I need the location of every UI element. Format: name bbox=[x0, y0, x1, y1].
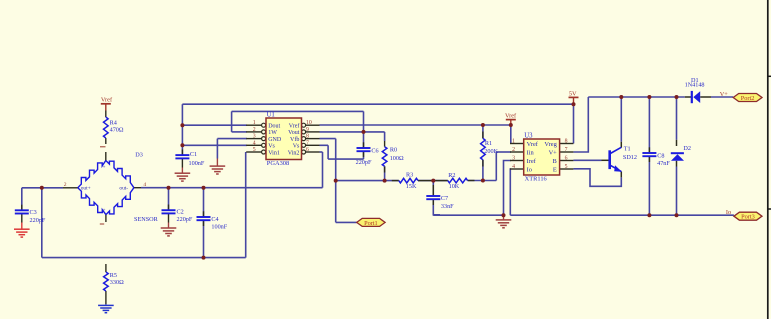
svg-text:6: 6 bbox=[306, 147, 309, 153]
wire Port1 lead bbox=[336, 221, 357, 223]
wire C6 bottom lead bbox=[363, 151, 365, 159]
svg-text:+: + bbox=[103, 166, 106, 171]
svg-text:V+: V+ bbox=[549, 149, 558, 156]
op-amp U1 PGA308 body bbox=[266, 118, 302, 160]
svg-text:1: 1 bbox=[512, 138, 515, 144]
resistor R4 body bbox=[104, 117, 109, 138]
stub C1 top lead bbox=[181, 150, 183, 156]
sheet border tick upper bbox=[768, 75, 771, 77]
junction pin4/supply bbox=[180, 143, 184, 147]
svg-text:E: E bbox=[553, 166, 557, 173]
wire U1 pin6 net bbox=[320, 151, 323, 153]
stub bridge top lead bbox=[105, 152, 107, 161]
wire Iin riser bbox=[495, 152, 497, 181]
wire C7 bottom lead bbox=[433, 199, 440, 215]
svg-text:220pF: 220pF bbox=[177, 216, 193, 223]
svg-text:330Ω: 330Ω bbox=[110, 279, 124, 286]
wire U3 pin2 lead bbox=[496, 151, 511, 153]
svg-text:C4: C4 bbox=[211, 216, 218, 223]
wire U1 pin8 Vfb bbox=[320, 138, 336, 140]
stub R5 leads bbox=[105, 264, 107, 272]
capacitor C3 body bbox=[15, 209, 29, 211]
svg-text:Iref: Iref bbox=[527, 158, 537, 165]
junction C4 bottom bbox=[202, 256, 206, 260]
svg-text:5: 5 bbox=[565, 164, 568, 170]
svg-text:R4: R4 bbox=[110, 120, 117, 127]
stub bridge left lead bbox=[63, 187, 78, 189]
svg-text:out+: out+ bbox=[81, 185, 91, 191]
wire U3 pin4 drop bbox=[509, 169, 512, 215]
wire Vout to R0 bbox=[384, 132, 386, 141]
svg-text:XTR116: XTR116 bbox=[525, 175, 547, 182]
svg-text:100nF: 100nF bbox=[189, 160, 205, 167]
diode D2 body bbox=[671, 154, 684, 160]
wire R3-R2 link bbox=[418, 180, 448, 182]
junction C4 tap bbox=[202, 186, 206, 190]
junction 5V stem bbox=[572, 102, 576, 106]
wire Vin2 riser bbox=[322, 152, 324, 188]
wire R1 top lead bbox=[482, 125, 484, 138]
power port Vref right bbox=[506, 119, 516, 121]
svg-text:470Ω: 470Ω bbox=[110, 127, 124, 134]
stub C3 top lead bbox=[21, 205, 23, 211]
wire emitter net bbox=[573, 169, 621, 187]
svg-text:3: 3 bbox=[253, 134, 256, 140]
svg-text:C1: C1 bbox=[190, 151, 197, 158]
sheet border right edge bbox=[767, 0, 769, 319]
svg-text:15K: 15K bbox=[406, 183, 417, 190]
stub C8 leads bbox=[648, 147, 650, 153]
svg-text:220pF: 220pF bbox=[356, 159, 372, 166]
stub C2 top lead bbox=[168, 205, 170, 211]
stub R2 leads bbox=[433, 180, 448, 182]
junction C2 tap bbox=[167, 186, 171, 190]
svg-text:Vout: Vout bbox=[288, 130, 300, 136]
op-amp U3 XTR116 body bbox=[524, 139, 560, 175]
svg-text:3: 3 bbox=[512, 155, 515, 161]
sheet border tick lower bbox=[768, 208, 771, 210]
wire V+ riser bbox=[573, 97, 588, 152]
svg-text:U3: U3 bbox=[524, 132, 533, 139]
wire C8 bottom lead bbox=[648, 156, 650, 215]
diode D1 body bbox=[693, 91, 700, 103]
svg-text:2: 2 bbox=[512, 147, 515, 153]
stub bridge bottom lead bbox=[105, 215, 107, 222]
stub R0 leads bbox=[384, 141, 386, 147]
stub T1 collector bbox=[620, 142, 622, 148]
stub bridge right lead bbox=[134, 187, 141, 189]
U3 left pin stubs bbox=[510, 143, 524, 145]
svg-text:5V: 5V bbox=[569, 91, 577, 98]
svg-text:33nF: 33nF bbox=[441, 203, 454, 210]
stub R3 leads bbox=[392, 180, 399, 182]
U3 right pin stubs bbox=[560, 143, 574, 145]
wire 1W jumper left drop bbox=[231, 111, 233, 131]
svg-text:Vs: Vs bbox=[293, 144, 300, 150]
svg-text:C6: C6 bbox=[371, 147, 378, 154]
junction R0 bottom bbox=[383, 179, 387, 183]
port Port2 bbox=[733, 94, 762, 102]
svg-text:47nF: 47nF bbox=[657, 160, 670, 167]
wire U3 pin3 gnd drop bbox=[504, 161, 512, 216]
wire feedback rail R3 left bbox=[336, 180, 399, 182]
wire U1 pin1 net bbox=[182, 124, 247, 126]
power port Vref left bbox=[101, 103, 111, 105]
svg-text:PGA308: PGA308 bbox=[267, 160, 289, 167]
port Port3 bbox=[734, 212, 762, 220]
resistor R3 body bbox=[399, 178, 418, 183]
wire Vref drop to U3 pin1 bbox=[510, 125, 512, 144]
svg-text:Iin: Iin bbox=[527, 149, 535, 156]
svg-text:100nF: 100nF bbox=[211, 223, 227, 230]
sensor bridge D3 arm bottom-left bbox=[78, 188, 106, 215]
wire bridge out- rail bbox=[141, 187, 323, 189]
capacitor C6 body bbox=[357, 147, 371, 149]
wire R0 bottom lead bbox=[384, 166, 386, 180]
svg-text:+: + bbox=[103, 209, 106, 214]
wire D2 top lead bbox=[676, 97, 678, 140]
svg-text:C7: C7 bbox=[441, 195, 448, 202]
stub C3 bottom lead bbox=[21, 214, 23, 223]
svg-text:Io: Io bbox=[726, 209, 731, 216]
svg-text:D3: D3 bbox=[135, 151, 143, 158]
svg-text:Vref: Vref bbox=[289, 123, 300, 130]
stub C4 leads bbox=[203, 211, 205, 217]
sensor bridge D3 arm bottom-right bbox=[106, 188, 134, 215]
stub D1 leads bbox=[685, 96, 691, 98]
junction Vout/C6 bbox=[362, 130, 366, 134]
svg-text:C2: C2 bbox=[177, 208, 184, 215]
junction C7 top bbox=[431, 179, 435, 183]
junction Vfb rail bbox=[334, 179, 338, 183]
svg-text:Vs: Vs bbox=[268, 144, 275, 150]
svg-text:Vfb: Vfb bbox=[290, 136, 299, 143]
svg-text:B: B bbox=[553, 158, 557, 165]
resistor R2 body bbox=[448, 178, 468, 183]
svg-text:V+: V+ bbox=[720, 91, 729, 98]
svg-text:Vref: Vref bbox=[101, 97, 113, 104]
svg-text:Vin1: Vin1 bbox=[268, 150, 280, 156]
svg-text:2: 2 bbox=[253, 127, 256, 133]
junction collector/V+ rail bbox=[619, 95, 623, 99]
wire Vref long net bbox=[320, 124, 511, 126]
svg-text:C8: C8 bbox=[657, 153, 664, 160]
wire U1 pin2 net bbox=[232, 131, 247, 133]
svg-text:out-: out- bbox=[119, 185, 128, 191]
capacitor C8 body bbox=[642, 152, 656, 154]
wire C2 top lead bbox=[168, 188, 170, 211]
svg-text:T1: T1 bbox=[624, 146, 631, 153]
resistor R0 body bbox=[382, 147, 387, 167]
ground blue under R5 bbox=[105, 304, 107, 305]
stub C7 top lead bbox=[432, 185, 434, 196]
junction R1 bottom bbox=[481, 179, 485, 183]
svg-text:D2: D2 bbox=[683, 145, 691, 152]
svg-text:2: 2 bbox=[64, 182, 67, 188]
ground red under U1 GND pin bbox=[216, 159, 218, 167]
wire 1W-to-Vout jumper top bbox=[232, 110, 364, 112]
svg-text:R3: R3 bbox=[406, 172, 413, 179]
svg-text:U1: U1 bbox=[267, 112, 275, 119]
wire bottom-left rail Vin1 bbox=[42, 257, 246, 259]
wire collector riser bbox=[620, 97, 622, 142]
junction pin1/supply bbox=[180, 123, 184, 127]
wire C7 top lead bbox=[432, 181, 434, 196]
svg-text:1W: 1W bbox=[268, 130, 277, 136]
U1 right pin stubs with dot bubbles bbox=[306, 124, 320, 126]
svg-text:200K: 200K bbox=[484, 148, 498, 155]
wire C6 bottom link bbox=[328, 158, 364, 160]
svg-text:4: 4 bbox=[253, 140, 256, 146]
stub T1 base bbox=[602, 159, 609, 161]
sensor bridge D3 arm top-right bbox=[106, 161, 134, 188]
junction R1 top bbox=[481, 123, 485, 127]
U1 left pin stubs with dot bubbles bbox=[246, 124, 261, 126]
svg-text:7: 7 bbox=[306, 140, 309, 146]
svg-text:Vref: Vref bbox=[527, 141, 539, 148]
stub C1 bottom lead bbox=[181, 158, 183, 167]
wire V+ top rail bbox=[588, 96, 685, 98]
transistor T1 emitter arm bbox=[610, 165, 621, 171]
svg-text:Port2: Port2 bbox=[741, 95, 755, 102]
capacitor C1 body bbox=[175, 154, 189, 156]
svg-text:Vin2: Vin2 bbox=[288, 150, 300, 156]
junction D2 top bbox=[675, 95, 679, 99]
wire D1 right lead bbox=[711, 96, 733, 98]
transistor T1 base bar bbox=[608, 150, 611, 169]
svg-text:220pF: 220pF bbox=[30, 217, 46, 224]
wire Vfb vertical bbox=[335, 139, 337, 223]
svg-text:7: 7 bbox=[565, 147, 568, 153]
stub C2 bottom lead bbox=[168, 213, 170, 222]
svg-text:Vreg: Vreg bbox=[544, 141, 557, 148]
wire D2 bottom lead bbox=[676, 167, 678, 216]
wire R1 bottom lead bbox=[482, 160, 484, 181]
wire U1 pin4 net bbox=[182, 144, 247, 146]
svg-text:6: 6 bbox=[565, 155, 568, 161]
svg-text:100Ω: 100Ω bbox=[390, 155, 404, 162]
junction C8 top bbox=[647, 95, 651, 99]
svg-text:Port3: Port3 bbox=[741, 214, 755, 221]
svg-text:10K: 10K bbox=[449, 183, 460, 190]
capacitor C4 body bbox=[197, 216, 211, 218]
stub C7 bottom lead bbox=[432, 199, 434, 205]
svg-text:Vref: Vref bbox=[505, 112, 517, 119]
wire C4 top lead bbox=[203, 188, 205, 217]
svg-text:1: 1 bbox=[253, 120, 256, 126]
port Port1 bbox=[357, 218, 385, 226]
stub D2 leads bbox=[676, 140, 678, 146]
wire U1 pin7 drop bbox=[327, 145, 329, 159]
svg-text:GND: GND bbox=[268, 137, 282, 143]
svg-text:4: 4 bbox=[512, 164, 515, 170]
sensor bridge D3 arm top-left bbox=[78, 161, 106, 188]
svg-text:C3: C3 bbox=[30, 209, 37, 216]
junction Vref stem bbox=[509, 123, 513, 127]
transistor T1 emitter arrow bbox=[614, 165, 622, 172]
wire base net bbox=[573, 159, 601, 161]
transistor T1 collector arm bbox=[610, 147, 621, 153]
wire C6 top lead bbox=[363, 111, 365, 148]
power port 5V bbox=[569, 96, 579, 98]
wire U1 pin5 vertical bbox=[245, 152, 247, 258]
ground bright red under C3 bbox=[21, 223, 23, 230]
svg-text:SD12: SD12 bbox=[623, 154, 637, 161]
stub C6 leads bbox=[363, 142, 365, 148]
stub R1 leads bbox=[482, 132, 484, 139]
resistor R1 body bbox=[481, 138, 486, 160]
svg-text:R2: R2 bbox=[448, 172, 455, 179]
stub R4 leads bbox=[105, 111, 107, 118]
capacitor C7 body bbox=[426, 195, 440, 197]
junction out+/C3 bbox=[40, 186, 44, 190]
wire C8 top lead bbox=[648, 97, 650, 153]
junction C8 bottom bbox=[647, 213, 651, 217]
wire output loop rail bbox=[510, 214, 734, 216]
svg-text:10: 10 bbox=[306, 120, 312, 126]
ground red under C2 bbox=[168, 223, 170, 229]
svg-text:R1: R1 bbox=[485, 140, 492, 147]
svg-text:4: 4 bbox=[143, 182, 146, 188]
wire U1 pin3 gnd drop bbox=[216, 139, 218, 159]
ground red at XTR Iref bbox=[503, 215, 505, 220]
svg-text:9: 9 bbox=[306, 127, 309, 133]
wire ground rail left bbox=[433, 214, 503, 216]
wire U1 pin7 net bbox=[320, 144, 329, 146]
svg-text:8: 8 bbox=[306, 134, 309, 140]
ground red under C1 bbox=[181, 168, 183, 174]
wire Vout net bbox=[320, 131, 385, 133]
stub T1 emitter bbox=[620, 172, 622, 178]
svg-text:SENSOR: SENSOR bbox=[134, 216, 159, 223]
wire C3 drop bbox=[21, 188, 23, 211]
wire bridge out+ left bbox=[22, 187, 63, 189]
wire R2 right to R1 node bbox=[468, 180, 497, 182]
svg-text:Port1: Port1 bbox=[364, 220, 378, 227]
wire supply vertical at C1 bbox=[181, 104, 183, 155]
wire out+ to bottom rail bbox=[41, 188, 43, 258]
svg-text:8: 8 bbox=[565, 138, 568, 144]
junction D2 bottom bbox=[675, 213, 679, 217]
capacitor C2 body bbox=[162, 209, 176, 211]
svg-text:Io: Io bbox=[527, 166, 532, 173]
wire C4 bottom lead bbox=[203, 220, 205, 257]
svg-text:1N4148: 1N4148 bbox=[685, 82, 705, 89]
wire U1 pin3 net bbox=[217, 138, 247, 140]
wire 5V drop to Vreg bbox=[573, 104, 575, 143]
wire 5V rail bbox=[182, 103, 573, 105]
svg-text:5: 5 bbox=[253, 147, 256, 153]
svg-text:Dout: Dout bbox=[268, 124, 280, 130]
junction gnd rail bbox=[502, 213, 506, 217]
resistor R5 body bbox=[104, 272, 109, 291]
svg-text:R0: R0 bbox=[390, 146, 397, 153]
